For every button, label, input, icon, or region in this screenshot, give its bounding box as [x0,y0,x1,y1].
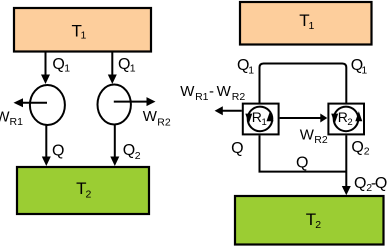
svg-text:Q: Q [351,139,363,156]
svg-text:2: 2 [364,146,370,158]
svg-text:Q: Q [231,140,243,157]
net work output arrow W_R1-W_R2 [215,106,242,115]
wire Q1 right (T1 to engine E2) [108,52,117,84]
value label Q2-Q [354,175,387,194]
svg-text:1: 1 [309,20,315,32]
svg-text:Q: Q [123,142,135,159]
svg-text:1: 1 [81,30,87,42]
reversible engine R2 (cycle circle) [331,107,362,132]
svg-text:1: 1 [248,64,254,76]
value label Q1 (left engine input) [52,56,70,74]
heat engine E2 (ellipse) [98,85,131,125]
svg-text:Q: Q [354,175,366,192]
reservoir T2 (left diagram) [17,167,149,214]
svg-text:R1: R1 [10,116,24,128]
svg-text:1: 1 [130,62,136,74]
svg-text:1: 1 [262,117,267,128]
value label W_R2 [143,108,171,128]
svg-text:R1: R1 [195,91,209,103]
wire Q1 left (T1 to engine E1) [41,52,50,84]
value label Q2 (R2 intake heat) [351,139,369,158]
svg-text:1: 1 [361,64,367,76]
value label W_R1 [0,109,23,129]
svg-text:1: 1 [64,62,70,74]
value label W_R1-W_R2 [180,83,245,103]
value label W_R2 (transfer) [300,126,328,146]
wire Q2 (engine E2 to T2) [110,125,119,167]
reservoir T1 (right diagram) [240,2,372,45]
wire Q (engine E1 to T2) [42,125,51,166]
value label Q2 (E2 reject heat) [123,142,141,162]
svg-text:2: 2 [315,219,321,231]
value label Q1 (right engine input) [118,56,136,74]
svg-text:R2: R2 [157,116,171,128]
value label Q1 (into R1) [237,57,254,76]
reversible engine R1 (cycle circle) [245,107,273,132]
svg-text:W: W [217,83,232,100]
work output arrow W_R1 [14,98,48,107]
wire loop top (Q1 feed to R1 and R2) [260,64,347,104]
wire Q2-Q (R2 to T2) [342,135,351,195]
svg-text:R2: R2 [232,91,246,103]
svg-text:2: 2 [347,117,352,128]
svg-text:W: W [300,126,315,143]
svg-text:Q: Q [118,56,130,73]
reservoir T1 (left diagram) [14,8,151,52]
reversible engine R2 (box) [328,104,364,135]
reservoir T2 (right diagram) [235,196,384,245]
svg-text:W: W [180,83,195,100]
svg-text:Q: Q [296,154,308,171]
work transfer arrow W_R2 (R1 to R2) [280,114,328,123]
svg-text:Q: Q [52,143,64,160]
svg-text:R: R [252,109,262,125]
value label Q1 (into R2) [351,57,368,76]
svg-text:Q: Q [52,56,64,73]
reversible engine R1 (box) [243,104,279,135]
svg-text:Q: Q [375,175,387,192]
svg-text:2: 2 [86,188,92,200]
heat engine E1 (ellipse) [30,85,65,125]
svg-text:2: 2 [135,150,141,162]
wire Q (R1 bottom to R2 bottom) [260,135,347,171]
work output arrow W_R2 [114,97,156,106]
svg-text:R2: R2 [314,134,328,146]
svg-text:W: W [143,108,158,125]
svg-text:-: - [209,83,214,100]
